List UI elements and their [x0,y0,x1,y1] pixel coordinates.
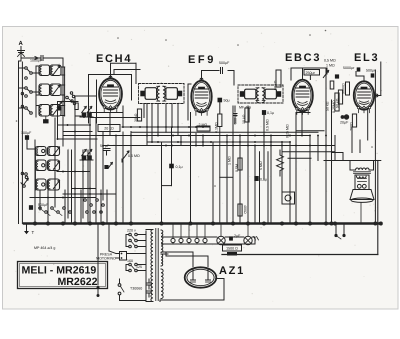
svg-text:50 kΩ: 50 kΩ [326,101,330,111]
capacitor Cav ECH4 [100,144,110,155]
coil pair L5 [36,160,60,171]
trimmer capacitor T5 [53,161,59,169]
svg-text:5 MΩ: 5 MΩ [259,161,263,170]
resistor 0.25M [332,93,339,113]
wire selector feeds [126,235,146,271]
pilot lamp 1 [217,225,225,245]
capacitor 2uF [229,234,241,241]
wire antenna down lead [19,58,22,224]
capacitor blob EBC3 [335,74,339,78]
model box MELI-MR2619 MR2622 [18,262,108,289]
coil pair L6 [36,179,60,190]
wire osc cluster links [58,102,98,140]
IF transformer 1 [139,84,185,104]
wire bank B rails [27,142,36,190]
svg-text:5000μғ: 5000μғ [343,66,355,70]
junction dots on bus [34,222,383,225]
capacitor 50pF blob [104,163,112,170]
wire horizontal heater line [103,131,335,146]
svg-text:T30060: T30060 [130,287,142,291]
svg-text:AZ1: AZ1 [219,265,245,277]
wire EL3 top cap [356,72,364,82]
tube ECH4 [99,79,122,113]
coil pair L4 [36,147,60,156]
vertical wires AF stage to bus [240,70,375,224]
resistor 50k coupling [335,90,342,108]
resistor 700 ohm EL3 cathode [349,114,356,131]
resistor 10k IF2 [242,108,249,124]
tube EBC3 [292,80,313,115]
svg-text:0,1MΩ: 0,1MΩ [215,122,219,133]
resistor 1500 ohm [223,245,242,256]
capacitor 0.1uF decoupling [162,127,183,186]
trimmer capacitor T4 [53,147,59,155]
label 0,5 MOhm left of hook [128,154,140,158]
rectifier tube AZ1 [185,267,217,287]
label PRESA MOTORINO [96,253,116,261]
wire HV to AZ1 [162,252,209,267]
wire AZ1 output B+ [160,279,224,302]
resistor 50k EBC3 plate [273,70,281,90]
svg-text:0,5M: 0,5M [235,164,239,172]
svg-text:A: A [19,40,24,47]
capacitor 20uF [340,114,349,124]
capacitor 500pF EF9 grid [219,61,230,74]
wire presa to bus [97,225,117,298]
switch contacts osc [66,92,76,105]
svg-text:250μғ: 250μғ [306,71,316,75]
svg-text:220 v: 220 v [127,229,136,233]
ground bus [24,222,381,225]
wire bank A row links [36,75,65,116]
tube EL3 [354,81,374,112]
svg-text:0,5 MΩ: 0,5 MΩ [324,59,336,63]
label MP 464 [34,246,55,250]
wire bank A to switches [19,68,40,108]
resistor small osc [75,103,78,110]
wire horizontal AF feed right [282,152,335,159]
capacitor 5000pF [343,66,360,72]
label AZ1 [219,265,245,277]
resistor 1M vertical mid [228,156,232,165]
svg-text:MOTORINO: MOTORINO [96,257,116,261]
capacitor 0.1uF detector [262,110,274,115]
ground terminal T [24,225,35,235]
trimmer capacitor T1 [53,66,60,75]
vertical wires tuner to bus [35,58,131,224]
wire heater lines [162,237,256,254]
svg-text:20 kΩ: 20 kΩ [104,127,114,131]
phono terminals [334,225,345,239]
coil pair L1 [39,65,61,76]
svg-text:700Ω: 700Ω [349,122,353,131]
capacitor 1000pF [30,56,47,63]
wave switch contact row 2 [84,199,105,214]
trimmer capacitor T3 [53,106,60,115]
mains switch [118,279,146,301]
IF transformer 2 [238,85,283,103]
svg-text:400Ω: 400Ω [243,205,247,214]
switch contacts bank A [25,67,33,115]
coil pair L2 [39,84,61,96]
svg-text:50 kΩ: 50 kΩ [335,98,339,108]
trimmer capacitor T6 [53,181,59,189]
capacitor 0.1uF AF [254,176,267,182]
trimmer padder ECH4 [122,151,129,162]
connector presa motorino [116,252,127,261]
switch contacts bank B [21,173,28,188]
svg-text:0,5 MΩ: 0,5 MΩ [266,119,270,131]
wire horizontal B+ distribution [131,131,318,133]
svg-text:10 kΩ: 10 kΩ [242,114,246,124]
junction dots left area [47,101,102,199]
svg-text:50 kΩ: 50 kΩ [273,80,277,90]
label EF9 [188,54,216,66]
vertical wires IF stage to bus [144,104,233,224]
trimmer capacitor osc [57,102,62,111]
output transformer [350,168,374,178]
resistor 0.1M EF9 [215,114,234,224]
capacitor 50uF EF9 [218,98,230,114]
svg-text:EBC3: EBC3 [285,52,321,64]
resistor 20k ECH4 cathode [98,125,120,132]
wire horizontal screen line [122,126,209,128]
wire speaker connections [324,100,381,224]
wire ECH4 envelope rect [75,75,132,124]
wire transformer primary taps [145,231,147,301]
svg-text:T: T [32,230,35,235]
wire B+ rail to output stage [222,161,378,255]
capacitor 100uF top of bank B [21,131,32,146]
wire horizontal B+ line [147,141,290,143]
svg-text:MP 464 a/4 g: MP 464 a/4 g [34,246,55,250]
heater socket pins [171,225,207,245]
pilot lamp 2 [244,225,252,245]
power transformer T1 [146,229,163,302]
potentiometer 0.5M volume [323,59,336,224]
capacitor line filter T30060 [130,279,152,297]
svg-text:0,1μ: 0,1μ [176,165,183,169]
wire horizontal left links [30,58,310,224]
svg-text:500μF: 500μF [219,61,230,65]
capacitor 250pF EBC3 [304,70,320,80]
voltage selector lower [127,259,146,272]
antenna A [18,40,25,60]
wire EF9 top cap [200,71,234,86]
svg-text:500μғ: 500μғ [366,69,376,73]
svg-text:2μF: 2μF [234,234,241,238]
svg-text:20μF: 20μF [340,121,349,125]
wave switch contact row 1 [39,207,72,216]
svg-text:EL3: EL3 [354,52,379,64]
resistor 5000 screen [342,82,350,95]
trimmer capacitor T2 [53,85,60,94]
label EL3 [354,52,379,64]
svg-text:MELI - MR2619: MELI - MR2619 [22,265,97,277]
resistor 100k small [330,81,334,89]
svg-text:100μF: 100μF [21,131,32,135]
label MF465 [239,106,251,110]
wire antenna lead-in with arrow [21,57,38,60]
svg-text:0,1μ: 0,1μ [260,178,267,182]
wire bank A left rail [36,66,39,117]
resistor 50k zigzag [277,150,284,176]
capacitor 500pF IF2 [233,106,238,124]
wire EBC3 top links [291,68,327,80]
svg-text:0,1μ: 0,1μ [267,111,274,115]
wire bank A right rail [61,67,65,116]
wire horizontal AVC line [63,135,310,137]
junction dots mid lines [115,126,327,146]
svg-text:50μ: 50μ [224,99,230,103]
svg-text:160: 160 [127,259,133,263]
svg-text:1 MΩ: 1 MΩ [228,156,232,165]
svg-text:0,5 MΩ: 0,5 MΩ [128,154,140,158]
wire EF9 envelope [188,84,191,120]
resistor 2M EF9 grid leak [197,123,210,131]
voltage selector upper [127,229,146,248]
svg-text:EF9: EF9 [188,54,216,66]
label ECH4 [96,53,132,65]
padder capacitor cluster 2 [80,150,93,161]
capacitor 500pF EL3 grid [366,69,376,78]
resistor 30k vertical [134,109,141,122]
svg-text:1500 Ω: 1500 Ω [226,247,238,251]
tone control box [282,192,295,204]
speaker [350,175,374,224]
svg-text:MR2622: MR2622 [57,276,97,288]
wire EL3 plate to right [374,62,381,97]
resistor 0.5M vertical mid [235,158,242,172]
wire ECH4 top cap [109,63,140,83]
label 50k rotated [326,101,330,111]
label EBC3 [285,52,321,64]
padder capacitor cluster 1 [80,107,93,118]
iron core slug [43,116,49,123]
coil pair L3 [39,105,61,117]
capacitor 500uF bank B [29,203,49,210]
lamp tick marks [254,237,259,241]
svg-text:1 MΩ: 1 MΩ [326,64,335,68]
tube EF9 [191,81,211,116]
svg-text:0,25 MΩ: 0,25 MΩ [286,124,290,138]
wire left AVC return [21,62,23,224]
labels mid resistors [259,119,290,170]
resistor 400 ohm [238,204,247,216]
